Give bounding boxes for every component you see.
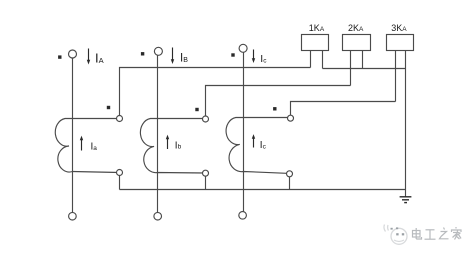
wire T3 primary vertical [243,52,245,211]
wire phase A to ammeter PA1 [120,68,311,116]
transformer T2 primary top terminal [154,47,162,55]
transformer T3 primary bottom terminal [239,212,247,220]
transformer T2 secondary winding [140,119,205,174]
ammeter PA1 box [302,35,329,51]
wire phase B to ammeter PA2 [206,86,351,117]
transformer T3 primary top terminal [239,44,247,52]
wire PA2 left lead [350,51,352,86]
char dian [413,228,422,239]
polarity mark T2 secondary [195,108,198,111]
polarity mark T1 primary [58,55,61,58]
wire T3 secondary bottom drop [289,177,291,190]
polarity mark T3 primary [231,53,234,56]
wire T2 primary vertical [157,55,159,212]
wire phase C to ammeter PA3 [291,102,396,116]
transformer T2 secondary top terminal [203,116,209,122]
polarity mark T2 primary [141,52,144,55]
current arrow IA [87,49,90,65]
char zhi [440,228,449,239]
current arrow IC [252,50,255,64]
current arrow Ib [166,135,169,149]
current arrow Ia [80,136,83,151]
current arrow IB [171,48,174,65]
wire PA2 right lead [362,51,364,69]
polarity mark T1 secondary [107,106,110,109]
wire common return bus [323,68,406,70]
transformer T3 secondary winding [226,118,290,174]
wire PA1 right lead [322,51,324,69]
transformer T1 secondary top terminal [117,116,123,122]
transformer T1 primary top terminal [69,50,77,58]
char gong [425,230,436,239]
wire T1 primary vertical [72,58,74,212]
transformer T2 secondary bottom terminal [203,170,209,176]
transformer T3 secondary top terminal [288,115,294,121]
char jia [452,227,462,240]
wire T1 secondary bottom drop [119,176,121,190]
watermark logo [384,225,407,245]
transformer T1 secondary bottom terminal [117,170,123,176]
transformer T2 primary bottom terminal [154,212,162,220]
polarity mark T3 secondary [273,107,276,110]
wire PA1 left lead [310,51,312,68]
wire PA3 right lead to ground [405,51,407,197]
current arrow Ic [252,134,255,147]
transformer T1 secondary winding [55,119,119,173]
ammeter PA3 box [387,35,414,51]
transformer T1 primary bottom terminal [69,212,77,220]
transformer T3 secondary bottom terminal [287,171,293,177]
watermark text dian gong zhi jia [413,227,462,240]
ammeter PA2 box [343,35,371,51]
wire neutral bottom [120,189,406,191]
wire T2 secondary bottom drop [205,176,207,189]
ground [400,197,412,203]
wire PA3 left lead [395,51,397,102]
